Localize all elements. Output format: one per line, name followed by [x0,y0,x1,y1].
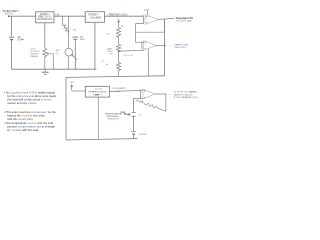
wire U2 bottom stub [94,22,96,69]
capacitor C3 [132,98,136,131]
wire M1 top lead [68,16,70,48]
svg-text:1N4148: 1N4148 [139,134,147,136]
wire lower box left edge [65,77,67,140]
svg-text:1%: 1% [109,53,112,55]
wire U6 inv input [134,97,143,99]
resistor R4 [117,44,121,52]
op-amp U4 [141,41,143,50]
wire U4 ground stub [148,49,150,76]
svg-text:(TYPE K SENSOR ONLY): (TYPE K SENSOR ONLY) [174,97,199,99]
sensor note label [105,113,123,121]
R4 label [107,48,113,55]
wire U1 output to pot R1 [44,23,46,49]
R1 wiper node dot [47,53,49,55]
C1 value label [80,37,86,42]
wire U3 output [159,18,174,19]
potentiometer R1 [43,48,47,69]
wire tap to op-amp U4 [119,49,144,52]
U4 output label [170,44,189,49]
U6 output label [169,91,198,100]
U5 label [88,89,107,97]
wire lower box bottom rail [66,139,138,140]
resistor R2 (diagonal) [62,16,69,34]
trimpot R3 body [117,27,121,44]
U1 label [37,13,52,21]
svg-text:sensor and trim values.: sensor and trim values. [7,101,37,105]
node U4 output dot [164,45,166,47]
node A (battery input label) [2,10,20,16]
node divider tap dot [118,51,120,53]
svg-text:3k: 3k [106,64,108,66]
trimpot R3 wiper arrow [118,20,120,27]
svg-text:1M: 1M [140,101,143,103]
arrow to -V [71,85,73,91]
svg-text:1k: 1k [102,60,104,62]
wire U3 inv node to U4 noninv input [136,32,144,42]
wire right vertical bus [164,20,166,76]
svg-text:0.1μF: 0.1μF [144,10,150,12]
op-amp U3 [143,15,145,23]
wire bottom rail (top circuit) [12,68,97,70]
wire U6 output [155,94,166,111]
svg-text:POWER ––: POWER –– [88,15,101,17]
svg-text:REMOTELY: REMOTELY [108,119,120,121]
battery B1 [9,16,14,69]
svg-text:RANGE: RANGE [31,55,39,58]
op-amp U6 [140,90,142,99]
svg-text:10k*: 10k* [106,33,110,35]
svg-text:= 0.001% (typ): = 0.001% (typ) [176,20,191,23]
amplifier box U2 [85,12,104,23]
svg-text:10mV/°C SCALING: 10mV/°C SCALING [174,93,193,96]
svg-text:0V TO 5V OUT RANGE: 0V TO 5V OUT RANGE [174,91,198,94]
thermocouple J1 [131,132,136,139]
svg-text:9V: 9V [18,36,21,39]
svg-text:REFERENCE: REFERENCE [37,18,52,21]
sensor box U5 [85,86,109,97]
capacitor C1 [72,36,78,69]
wire U5 output to U6 [110,90,143,91]
note bullet 2 [4,110,56,121]
M1 needle arrow [72,55,77,60]
svg-text:(TEXT): (TEXT) [5,12,13,15]
U4 input polarity marks [145,42,146,49]
svg-text:IC; contact with the load.: IC; contact with the load. [7,128,39,132]
svg-text:1k*: 1k* [117,19,120,21]
battery B1 value label [18,36,24,42]
wire C2 lead [146,11,148,15]
wire arrow to sensor box [72,90,86,92]
svg-text:BAT: BAT [18,39,23,42]
svg-text:4.7k = 1%: 4.7k = 1% [124,55,133,57]
note bullet 1 [4,90,57,105]
U5 right label [112,88,127,93]
wire top rail right [105,15,144,17]
meter M1 [65,48,73,56]
wire top rail left [9,15,36,17]
wire top rail mid [54,15,85,17]
svg-text:THERMOCOUPLE: THERMOCOUPLE [88,92,107,94]
wire U3 feedback loop [136,20,165,33]
resistor R5 [117,51,121,76]
svg-text:TANT: TANT [80,38,86,41]
U3 input polarity marks [146,16,147,23]
M1 label [56,50,61,55]
wire U4 output [156,45,165,47]
svg-text:≈ TRIM FOR 0.000V: ≈ TRIM FOR 0.000V [107,13,128,16]
svg-text:COLD JUNCT.: COLD JUNCT. [112,88,127,90]
svg-text:–Vs+: –Vs+ [70,82,76,84]
svg-text:Standard 5V: Standard 5V [176,16,194,20]
wire U5 ground stub [97,97,99,139]
node dot battery top [8,15,10,17]
svg-text:LT1025: LT1025 [95,89,103,91]
svg-text:1 AMP IC: 1 AMP IC [93,94,103,97]
wire R1 wiper to rail [48,54,53,69]
note bullet 3 [4,121,55,132]
output label (stable 5V) [176,16,194,23]
pointer arrow to C3 [120,112,130,115]
svg-text:≈ 50μA MAX: ≈ 50μA MAX [88,16,101,19]
wire M1 bottom lead [68,56,70,69]
svg-text:(SEE TEXT): (SEE TEXT) [175,47,187,49]
resistor R6 feedback (diagonal) [136,100,166,111]
voltage reference box U1 [36,12,54,23]
svg-text:2k: 2k [121,26,123,28]
ground [42,69,49,74]
U6 input polarity marks [144,90,145,97]
U2 label [88,15,101,20]
R1 label [31,49,40,59]
wire lower box top rail [66,76,165,78]
